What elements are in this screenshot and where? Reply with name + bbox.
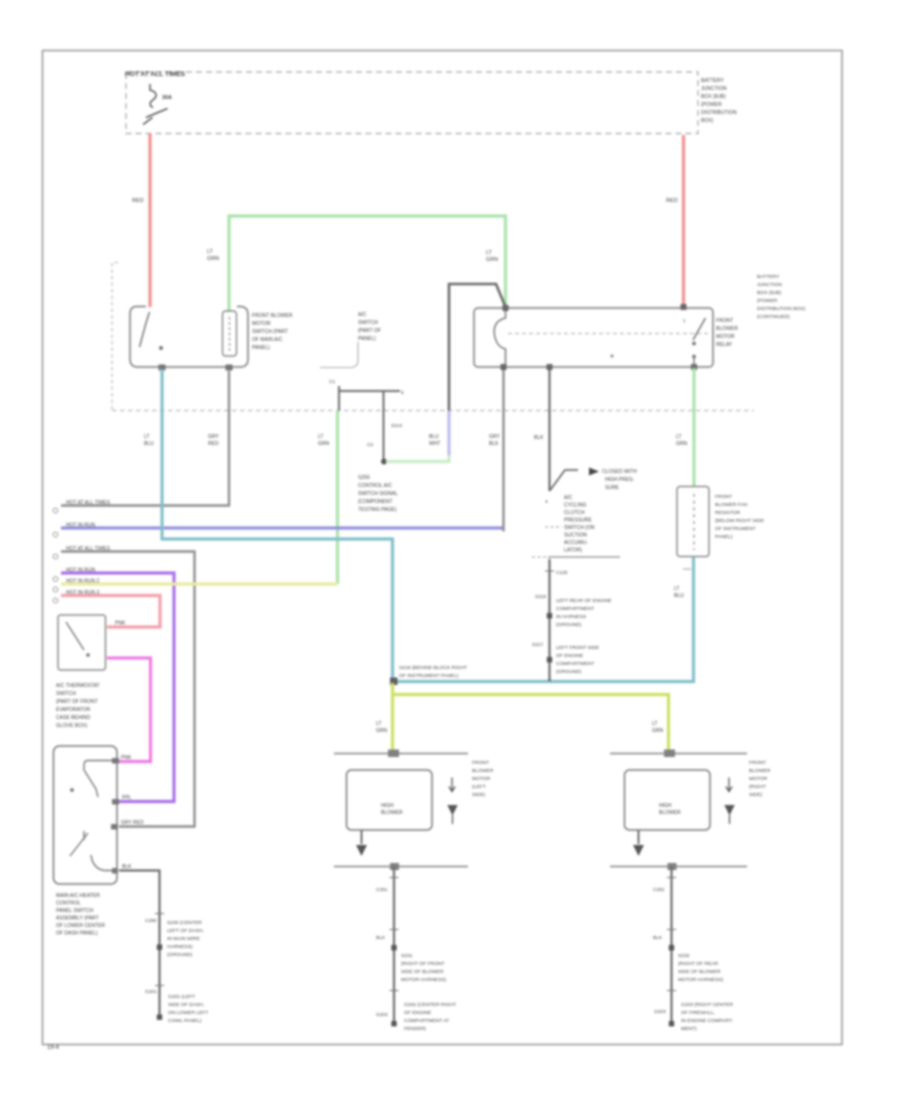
right motor ground pin	[638, 830, 640, 844]
wire black pressure switch output	[548, 559, 550, 682]
svg-text:(LEFT: (LEFT	[472, 784, 486, 790]
svg-text:JUNCTION: JUNCTION	[757, 282, 782, 288]
switch lower hook to pin	[91, 855, 112, 871]
svg-text:SWITCH: SWITCH	[56, 691, 76, 697]
svg-text:BATTERY: BATTERY	[701, 78, 724, 84]
svg-text:RED: RED	[132, 198, 144, 204]
svg-text:C290: C290	[145, 918, 157, 924]
svg-text:CONTROL: CONTROL	[56, 901, 81, 907]
svg-text:GRY: GRY	[208, 434, 219, 440]
svg-text:S230 (CENTER: S230 (CENTER	[167, 920, 202, 926]
svg-text:PNK: PNK	[115, 621, 126, 627]
stub connector circle 6	[53, 598, 58, 603]
left lower connector nub	[390, 863, 399, 870]
svg-text:SIDE): SIDE)	[472, 792, 486, 798]
wire green mid vertical	[336, 411, 339, 585]
left motor connector line	[334, 753, 468, 755]
right lower connector nub	[668, 863, 677, 870]
svg-text:DISTRIBUTION: DISTRIBUTION	[701, 110, 737, 116]
left motor ground arrow	[356, 845, 367, 856]
svg-text:G202 (CENTER RIGHT: G202 (CENTER RIGHT	[404, 1002, 456, 1008]
svg-text:SURE: SURE	[605, 485, 620, 491]
svg-text:CYCLING: CYCLING	[564, 503, 587, 509]
wire black pressure switch feed	[548, 368, 550, 491]
svg-text:(BELOW RIGHT SIDE: (BELOW RIGHT SIDE	[715, 518, 765, 524]
svg-text:(PART OF: (PART OF	[358, 328, 381, 334]
svg-text:IN HARNESS: IN HARNESS	[556, 614, 587, 620]
svg-text:HOT AT ALL TIMES: HOT AT ALL TIMES	[66, 546, 111, 552]
svg-text:CONTROL A/C: CONTROL A/C	[358, 483, 392, 489]
svg-text:GRN: GRN	[318, 441, 330, 447]
switch pin purple	[112, 799, 119, 805]
stub connector circle 2	[53, 532, 58, 537]
svg-text:FRONT: FRONT	[749, 760, 766, 766]
right motor connector line	[610, 753, 747, 755]
svg-text:HOT IN RUN: HOT IN RUN	[66, 523, 95, 529]
left gnd dot 2	[391, 1021, 396, 1026]
svg-text:(GROUND): (GROUND)	[167, 952, 193, 958]
relay pin bottom 2	[547, 364, 553, 370]
connector dashed line (C228) across page	[112, 410, 754, 412]
relay coil top pin	[503, 305, 509, 311]
connector tick C125	[545, 570, 554, 572]
main switch box	[54, 746, 118, 884]
svg-text:S217: S217	[532, 642, 544, 648]
fuse panel dashed box	[126, 72, 698, 134]
svg-text:ASSEMBLY (PART: ASSEMBLY (PART	[56, 916, 99, 922]
wire gray relay to blue	[502, 368, 504, 532]
svg-text:HIGH: HIGH	[659, 803, 672, 809]
svg-text:MOTOR: MOTOR	[472, 776, 491, 782]
svg-text:S231: S231	[401, 953, 413, 959]
wire magenta	[107, 658, 151, 762]
left lower connector line	[334, 866, 468, 868]
wire black switch feed vertical	[338, 386, 340, 411]
svg-text:BOX): BOX)	[701, 118, 714, 124]
pressure switch blade	[550, 470, 579, 491]
svg-text:S232: S232	[678, 953, 690, 959]
blower switch pin nub teal	[159, 365, 166, 371]
svg-text:COMPARTMENT: COMPARTMENT	[556, 606, 594, 612]
svg-text:(RIGHT: (RIGHT	[749, 784, 766, 790]
svg-text:BLK: BLK	[122, 864, 132, 870]
wire red right	[682, 135, 685, 306]
wire relay coil feed (dark)	[449, 284, 506, 411]
svg-text:LT: LT	[207, 249, 214, 255]
svg-text:OF LOWER CENTER: OF LOWER CENTER	[56, 923, 105, 929]
svg-text:GRN: GRN	[207, 256, 219, 262]
svg-text:OF DASH PANEL): OF DASH PANEL)	[56, 931, 98, 937]
svg-text:CASE BEHIND: CASE BEHIND	[56, 715, 91, 721]
svg-text:PANEL SWITCH: PANEL SWITCH	[56, 908, 94, 914]
svg-text:HOT IN RUN: HOT IN RUN	[66, 568, 95, 574]
stub wire gray 1	[61, 371, 229, 506]
pressure switch terminal arrow	[589, 468, 599, 476]
svg-text:HOT IN RUN 3: HOT IN RUN 3	[66, 590, 99, 596]
leader line	[320, 342, 358, 368]
svg-text:ACCUMU-: ACCUMU-	[564, 540, 588, 546]
left gnd dot 1	[391, 945, 396, 950]
svg-text:LT: LT	[652, 721, 657, 727]
svg-text:LEFT OF DASH,: LEFT OF DASH,	[167, 928, 204, 934]
right motor connector nub	[664, 750, 675, 758]
svg-text:SIDE OF BLOWER: SIDE OF BLOWER	[401, 969, 444, 975]
svg-text:HIGH: HIGH	[381, 803, 394, 809]
svg-text:GLOVE BOX): GLOVE BOX)	[56, 723, 87, 729]
wire chartreuse distribution	[393, 683, 669, 754]
svg-text:BLK: BLK	[653, 935, 663, 941]
svg-text:SWITCH (ON: SWITCH (ON	[564, 525, 595, 531]
svg-text:G203: G203	[654, 1009, 666, 1015]
wire pink	[61, 596, 160, 628]
switch upper contact dot	[70, 788, 74, 792]
switch lower blade	[70, 831, 88, 856]
fuse F1.7 symbol	[143, 84, 168, 125]
svg-text:LEFT REAR OF ENGINE: LEFT REAR OF ENGINE	[556, 598, 612, 604]
switch pin magenta	[112, 758, 119, 764]
relay inner mark	[610, 354, 613, 357]
left motor ground pin	[361, 830, 363, 844]
svg-text:MOTOR: MOTOR	[716, 334, 735, 340]
left motor connector nub	[388, 750, 399, 758]
svg-text:SIDE): SIDE)	[749, 792, 763, 798]
svg-text:SUCTION: SUCTION	[564, 533, 587, 539]
svg-text:GRY: GRY	[489, 434, 500, 440]
wire teal U-run	[162, 369, 694, 682]
svg-text:LEFT FRONT SIDE: LEFT FRONT SIDE	[556, 645, 600, 651]
svg-text:OF ENGINE: OF ENGINE	[556, 653, 584, 659]
svg-text:HIGH PRES-: HIGH PRES-	[605, 477, 635, 483]
ground ref B dot	[157, 1015, 162, 1020]
svg-text:S214: S214	[391, 423, 403, 429]
right motor ground arrow	[633, 845, 644, 856]
svg-text:BATTERY: BATTERY	[757, 274, 780, 280]
svg-text:RESISTOR: RESISTOR	[715, 510, 741, 516]
right lower connector line	[610, 866, 747, 868]
svg-text:(POWER: (POWER	[701, 102, 722, 108]
left motor arrow small	[449, 778, 455, 792]
svg-text:OF INSTRUMENT PANEL): OF INSTRUMENT PANEL)	[399, 673, 459, 679]
svg-text:LATOR): LATOR)	[564, 548, 582, 554]
splice dot	[381, 459, 387, 465]
svg-text:BLU: BLU	[144, 441, 154, 447]
underline bracket	[548, 556, 620, 558]
svg-text:BLK: BLK	[534, 435, 544, 441]
wire yellow	[61, 582, 338, 585]
wire black switch feed horizontal	[339, 390, 400, 392]
svg-text:ON LOWER LEFT: ON LOWER LEFT	[168, 1010, 208, 1016]
svg-text:LT: LT	[674, 586, 679, 592]
thermostat box	[58, 615, 106, 670]
svg-text:BLK: BLK	[376, 935, 386, 941]
svg-text:A/C: A/C	[564, 495, 573, 501]
svg-text:PNK: PNK	[121, 755, 132, 761]
svg-text:BOX (BJB): BOX (BJB)	[701, 94, 726, 100]
wire red left	[148, 134, 151, 308]
svg-text:C2: C2	[367, 442, 373, 448]
svg-text:LT: LT	[676, 434, 681, 440]
svg-text:C252: C252	[653, 887, 665, 893]
svg-text:RED: RED	[666, 198, 678, 204]
resistor element dashes right	[693, 494, 695, 550]
svg-text:WHT: WHT	[429, 441, 440, 447]
switch upper hook	[84, 761, 112, 771]
wire green relay output	[692, 368, 695, 487]
blower relay box	[474, 308, 713, 367]
svg-text:MOTOR: MOTOR	[749, 776, 768, 782]
svg-text:LT: LT	[144, 434, 149, 440]
blower switch contact dot	[159, 346, 163, 350]
svg-text:BLU: BLU	[674, 593, 684, 599]
svg-text:A/C THERMOSTAT: A/C THERMOSTAT	[56, 683, 100, 689]
svg-text:HOT IN RUN 2: HOT IN RUN 2	[66, 579, 99, 585]
connector tick on blue wire	[683, 568, 691, 570]
relay internal dashed divider	[508, 333, 711, 335]
blower resistor box	[223, 311, 237, 356]
svg-text:(RIGHT OF FRONT: (RIGHT OF FRONT	[401, 961, 445, 967]
mechanical link dashes	[545, 526, 562, 528]
control assembly dashed enclosure left edge	[112, 263, 118, 411]
svg-text:FRONT BLOWER: FRONT BLOWER	[252, 313, 293, 319]
switch pin gray	[111, 824, 118, 830]
blower switch pin nub gray	[226, 365, 233, 371]
right motor arrow small	[726, 778, 732, 792]
wire blue bus	[61, 526, 504, 529]
svg-text:MOTOR HARNESS): MOTOR HARNESS)	[678, 977, 724, 983]
blower switch box	[130, 307, 248, 368]
svg-text:EVAPORATOR: EVAPORATOR	[56, 707, 91, 713]
thermostat contact dot	[86, 653, 90, 657]
relay switch blade	[693, 318, 706, 340]
right gnd dot 1	[669, 945, 674, 950]
relay pin top red	[681, 304, 687, 310]
svg-text:S216: S216	[535, 594, 547, 600]
wire black switch ground	[119, 871, 160, 1018]
svg-text:FRONT: FRONT	[472, 760, 489, 766]
svg-text:RED: RED	[208, 441, 219, 447]
svg-text:BLOWER FAN: BLOWER FAN	[715, 502, 748, 508]
svg-text:19-4: 19-4	[47, 1045, 60, 1051]
relay contact stem	[693, 357, 695, 367]
stub connector circle 5	[53, 587, 58, 592]
svg-text:OF INSTRUMENT: OF INSTRUMENT	[715, 526, 756, 532]
svg-text:BLOWER: BLOWER	[659, 810, 681, 816]
stub wire gray 3 (to big switch)	[61, 552, 195, 827]
svg-text:BLOWER: BLOWER	[716, 326, 738, 332]
splice nub S218	[390, 678, 398, 686]
svg-text:G203 (RIGHT CENTER: G203 (RIGHT CENTER	[681, 1002, 733, 1008]
junction dot pressure switch to teal	[548, 678, 551, 681]
svg-text:PANEL): PANEL)	[715, 534, 733, 540]
left motor arrow solid	[447, 805, 457, 816]
svg-text:(CONTINUED): (CONTINUED)	[757, 314, 790, 320]
svg-text:G201 (LEFT: G201 (LEFT	[168, 994, 195, 1000]
svg-text:PRESSURE: PRESSURE	[564, 518, 592, 524]
switch pin black	[112, 868, 118, 874]
wire purple	[61, 573, 174, 802]
svg-text:MOTOR: MOTOR	[252, 321, 271, 327]
svg-text:OF ENGINE: OF ENGINE	[404, 1010, 432, 1016]
svg-text:HARNESS): HARNESS)	[167, 944, 193, 950]
svg-text:HOT AT ALL TIMES: HOT AT ALL TIMES	[66, 500, 111, 506]
right ground distribution wire	[670, 867, 672, 1026]
svg-text:MAIN A/C-HEATER: MAIN A/C-HEATER	[56, 893, 100, 899]
svg-text:LT: LT	[376, 721, 381, 727]
svg-text:1: 1	[683, 318, 686, 323]
svg-text:4: 4	[545, 499, 548, 505]
svg-text:OF FIREWALL,: OF FIREWALL,	[681, 1010, 715, 1016]
left motor box	[347, 770, 433, 830]
svg-text:COMPARTMENT AT: COMPARTMENT AT	[404, 1018, 449, 1024]
svg-text:FRONT: FRONT	[715, 494, 732, 500]
blower resistor element dashes	[229, 317, 231, 352]
svg-text:FENDER): FENDER)	[404, 1026, 426, 1032]
svg-text:BLOWER: BLOWER	[749, 768, 771, 774]
svg-text:S255: S255	[358, 475, 370, 481]
svg-text:(COMPONENT: (COMPONENT	[358, 499, 393, 505]
svg-text:PANEL): PANEL)	[252, 345, 270, 351]
svg-text:SWITCH SIGNAL: SWITCH SIGNAL	[358, 491, 398, 497]
svg-text:PPL: PPL	[122, 795, 132, 801]
svg-text:BLK: BLK	[489, 441, 499, 447]
relay contact dot 2	[692, 355, 696, 359]
stub connector circle 3	[53, 554, 58, 559]
svg-text:S218 (BEHIND BLOCK RIGHT: S218 (BEHIND BLOCK RIGHT	[399, 665, 467, 671]
right motor box	[625, 770, 711, 830]
svg-text:C251: C251	[376, 887, 388, 893]
svg-text:(GROUND): (GROUND)	[556, 622, 582, 628]
svg-text:BOX (BJB): BOX (BJB)	[757, 290, 781, 296]
svg-text:GRN: GRN	[676, 441, 688, 447]
svg-text:DISTRIBUTION BOX): DISTRIBUTION BOX)	[757, 306, 806, 312]
svg-text:30A: 30A	[162, 95, 172, 101]
svg-text:BLOWER: BLOWER	[381, 810, 403, 816]
svg-text:IN ENGINE COMPART-: IN ENGINE COMPART-	[681, 1018, 734, 1024]
wire black splice drop	[383, 391, 385, 462]
svg-text:MENT): MENT)	[681, 1026, 697, 1032]
svg-text:(GROUND): (GROUND)	[556, 669, 582, 675]
svg-text:COWL PANEL): COWL PANEL)	[168, 1018, 202, 1024]
svg-text:JUNCTION: JUNCTION	[701, 86, 727, 92]
svg-text:(POWER: (POWER	[757, 298, 778, 304]
svg-text:BLOWER: BLOWER	[472, 768, 494, 774]
svg-text:RELAY: RELAY	[716, 342, 733, 348]
wire lavender below connector	[447, 411, 450, 458]
svg-text:SWITCH: SWITCH	[358, 320, 378, 326]
svg-text:GRN: GRN	[652, 728, 664, 734]
svg-text:(RIGHT OF REAR: (RIGHT OF REAR	[678, 961, 719, 967]
svg-text:OF MAIN A/C: OF MAIN A/C	[252, 337, 283, 343]
branch ref 1 dot	[547, 613, 552, 618]
stub connector circle 1	[53, 508, 58, 513]
svg-text:5: 5	[401, 390, 404, 396]
blower switch blade	[140, 312, 150, 347]
svg-text:GRY RED: GRY RED	[121, 820, 144, 826]
svg-text:BLU: BLU	[429, 434, 439, 440]
svg-text:FRONT: FRONT	[716, 318, 733, 324]
svg-text:G201: G201	[145, 989, 157, 995]
right motor arrow solid	[724, 805, 734, 816]
switch upper blade	[84, 770, 98, 797]
svg-text:G202: G202	[376, 1012, 388, 1018]
thermostat blade	[66, 622, 84, 650]
svg-text:A/C: A/C	[358, 312, 367, 318]
wire green feed (top loop)	[229, 216, 506, 312]
svg-text:GRN: GRN	[376, 728, 388, 734]
svg-text:GRN: GRN	[486, 257, 498, 263]
svg-text:TESTING PAGE): TESTING PAGE)	[358, 507, 397, 513]
relay coil	[494, 309, 505, 367]
relay contact dot 1	[692, 342, 696, 346]
svg-text:HOT AT ALL TIMES: HOT AT ALL TIMES	[125, 71, 186, 78]
svg-text:LT: LT	[318, 434, 323, 440]
svg-text:LT: LT	[486, 250, 493, 256]
svg-text:COMPARTMENT: COMPARTMENT	[556, 661, 594, 667]
svg-text:IN MAIN WIRE: IN MAIN WIRE	[167, 936, 201, 942]
branch ref 2 dot	[547, 657, 552, 662]
stub connector circle 4	[53, 577, 58, 582]
wire pale green elbow to splice	[386, 455, 449, 462]
left ground distribution wire	[393, 867, 395, 1026]
svg-text:SWITCH (PART: SWITCH (PART	[252, 329, 288, 335]
svg-text:SIDE OF BLOWER: SIDE OF BLOWER	[678, 969, 721, 975]
svg-text:C1: C1	[329, 379, 335, 385]
svg-text:SIDE OF DASH,: SIDE OF DASH,	[168, 1002, 204, 1008]
svg-text:CLUTCH: CLUTCH	[564, 510, 585, 516]
svg-text:CLOSED WITH: CLOSED WITH	[602, 469, 637, 475]
right gnd dot 2	[669, 1021, 674, 1026]
blower resistor right box	[677, 487, 709, 557]
relay pin bottom 1	[501, 364, 507, 370]
relay pin bottom 3	[691, 364, 697, 370]
svg-text:PANEL): PANEL)	[358, 336, 376, 342]
svg-text:MOTOR HARNESS): MOTOR HARNESS)	[401, 977, 447, 983]
svg-text:(PART OF FRONT: (PART OF FRONT	[56, 699, 98, 705]
ground ref A dot	[157, 945, 162, 950]
svg-text:C125: C125	[556, 570, 568, 576]
